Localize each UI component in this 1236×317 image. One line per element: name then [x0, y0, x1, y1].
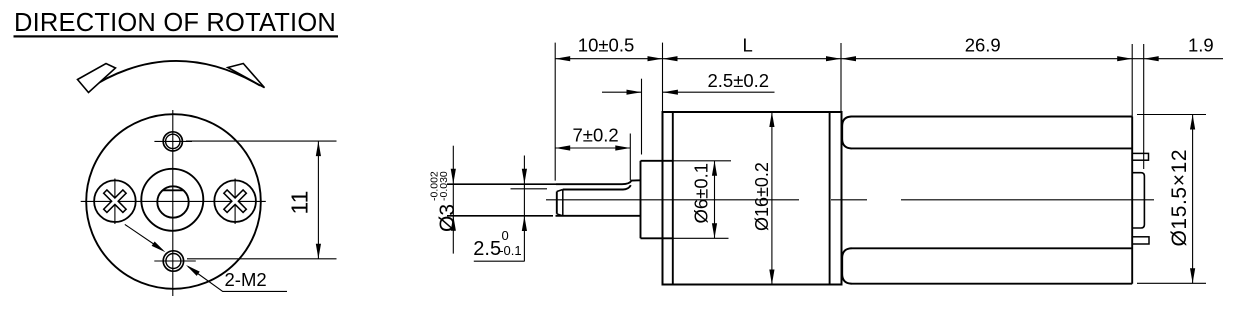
right screw cross: [216, 182, 254, 220]
svg-text:-0.030: -0.030: [438, 171, 450, 201]
dim dia3 text with tolerance: [428, 171, 459, 232]
dim 2.5+-0.2 left segment: [602, 91, 642, 93]
rotation arrow left head: [78, 64, 116, 93]
svg-text:0: 0: [502, 228, 509, 243]
top hole horizontal tick: [154, 140, 192, 142]
dim 11 dimension line: [317, 141, 319, 259]
motor can top left cap: [842, 117, 851, 149]
side view centerline: [546, 199, 1154, 201]
motor can bottom left cap: [842, 248, 851, 283]
gearbox front plate inner line: [672, 112, 674, 285]
shaft flat edge: [563, 185, 631, 189]
face view vertical centerline: [172, 110, 174, 296]
face view outer circle: [86, 114, 261, 289]
center boss circle: [141, 169, 203, 231]
terminal tab top: [1132, 153, 1148, 160]
svg-text:7±0.2: 7±0.2: [573, 125, 619, 146]
face view horizontal centerline: [81, 200, 266, 202]
dim dia6 dimension line: [714, 161, 716, 239]
svg-text:Ø16±0.2: Ø16±0.2: [752, 162, 772, 231]
top hole inner circle: [166, 134, 180, 148]
shaft top silhouette line (ext + object): [447, 183, 556, 185]
left screw vertical tick: [114, 179, 116, 225]
title underline: [14, 35, 339, 37]
dim dia15.5 dimension line: [1192, 115, 1194, 284]
left screw cross: [96, 182, 134, 220]
boss face line: [640, 161, 642, 239]
boss top edge + dia6 top extension: [641, 160, 673, 162]
rotation arrow arc: [86, 61, 260, 91]
shaft tip face: [556, 192, 558, 214]
svg-text:-0.1: -0.1: [499, 243, 521, 258]
svg-text:2.5: 2.5: [473, 238, 501, 260]
shaft tip chamfer top: [557, 190, 563, 192]
svg-text:DIRECTION OF ROTATION: DIRECTION OF ROTATION: [14, 9, 336, 37]
dim 11 bottom extension line: [187, 258, 337, 260]
motor can right edge: [1131, 117, 1133, 284]
shaft circle: [157, 186, 188, 217]
top dim extension 1.9 right: [1143, 44, 1145, 169]
leader arrow to bottom hole upper: [125, 224, 163, 250]
svg-text:1.9: 1.9: [1188, 35, 1214, 56]
dim dia16 dimension line: [771, 112, 773, 285]
leader 2-M2: [188, 267, 287, 292]
shaft flat short extension: [511, 188, 548, 190]
svg-text:Ø6±0.1: Ø6±0.1: [691, 163, 712, 224]
svg-text:2-M2: 2-M2: [225, 269, 267, 290]
dim dia3 dimension line: [452, 146, 454, 254]
top dim extension at gearbox rear: [840, 43, 842, 112]
top dim extension at gearbox face: [662, 43, 664, 112]
terminal tab bottom: [1132, 237, 1149, 244]
motor can bottom inner line: [851, 247, 1133, 249]
bottom hole horizontal tick: [154, 260, 196, 262]
end cap bump: [1132, 173, 1144, 228]
svg-text:L: L: [743, 35, 753, 56]
dim dia15.5 bottom extension: [1137, 282, 1206, 284]
dim 2.5-0.1 text underline: [474, 260, 525, 262]
bottom hole outer circle: [163, 251, 183, 271]
top hole outer circle: [163, 132, 182, 151]
dim 2.5-0.1 dimension line: [523, 156, 525, 262]
right screw circle: [214, 180, 256, 222]
shaft tip chamfer bottom: [557, 214, 563, 216]
motor can bottom line: [851, 283, 1133, 285]
svg-text:Ø15.5×12: Ø15.5×12: [1168, 149, 1191, 247]
svg-text:Ø3: Ø3: [436, 204, 459, 232]
top dim extension line at shaft tip: [554, 43, 556, 181]
dim line 1.9 right part: [1144, 58, 1223, 60]
dim 11 top extension line: [186, 140, 337, 142]
motor can top inner line: [851, 147, 1133, 149]
shaft tip chamfer edge: [562, 190, 564, 216]
left screw circle: [94, 180, 136, 222]
svg-text:26.9: 26.9: [965, 34, 1001, 55]
shaft bottom line: [447, 215, 553, 217]
gearbox body rectangle: [663, 112, 842, 285]
top dim extension at can end: [1131, 44, 1133, 117]
boss bottom edge + dia6 bottom extension: [641, 237, 673, 239]
shaft flat chord: [162, 189, 183, 191]
right screw vertical tick: [234, 179, 236, 225]
svg-text:2.5±0.2: 2.5±0.2: [708, 70, 770, 91]
dim 2.5+-0.2 extension line: [641, 79, 643, 155]
svg-text:11: 11: [287, 191, 313, 215]
dim 2.5+-0.2 right segment: [663, 91, 775, 93]
gearbox rear plate inner line: [829, 112, 831, 285]
bottom hole inner circle: [166, 254, 181, 269]
dim line 10/L/26.9: [555, 58, 1143, 60]
motor can top line: [851, 116, 1133, 118]
svg-text:10±0.5: 10±0.5: [578, 35, 634, 56]
dim dia15.5 top extension: [1137, 114, 1206, 116]
dim 7+-0.2 right extension: [629, 134, 631, 181]
rotation arrow right head: [228, 64, 265, 88]
dim 7+-0.2 line: [555, 147, 630, 149]
